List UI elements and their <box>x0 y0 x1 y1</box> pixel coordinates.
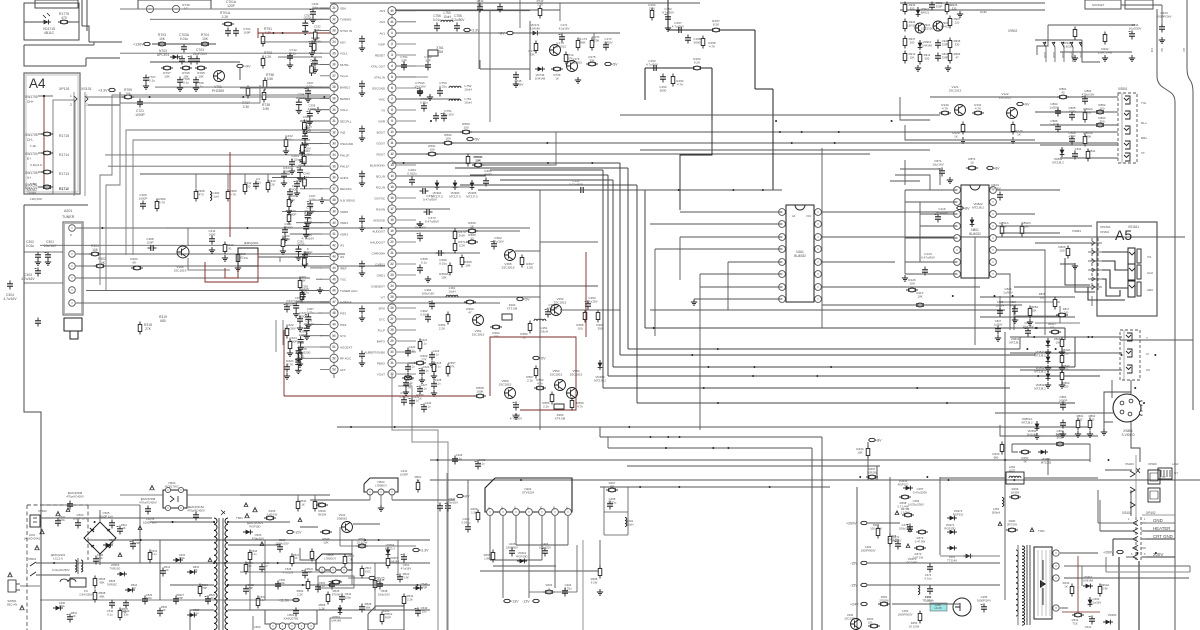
svg-text:1N4148: 1N4148 <box>331 618 341 622</box>
svg-text:0.47u/50V: 0.47u/50V <box>921 256 936 260</box>
svg-text:12: 12 <box>390 152 394 156</box>
svg-text:470u/16V: 470u/16V <box>446 500 458 504</box>
svg-text:L7805CV: L7805CV <box>324 557 336 561</box>
svg-text:0.22u: 0.22u <box>314 28 321 32</box>
svg-text:+9V: +9V <box>244 64 251 68</box>
svg-text:10u/16V: 10u/16V <box>44 244 57 248</box>
svg-text:100: 100 <box>429 148 434 152</box>
svg-text:3: 3 <box>391 53 393 57</box>
svg-text:XP1601: XP1601 <box>1100 230 1110 234</box>
svg-text:10u/16V: 10u/16V <box>1022 325 1033 329</box>
svg-text:10uH: 10uH <box>448 290 455 294</box>
svg-text:22uF/50V: 22uF/50V <box>193 52 208 56</box>
svg-text:GND: GND <box>1070 52 1074 58</box>
svg-text:41: 41 <box>332 232 336 236</box>
svg-text:1K: 1K <box>301 503 305 507</box>
svg-text:100: 100 <box>1099 107 1104 111</box>
svg-text:XT3.5M: XT3.5M <box>507 307 518 311</box>
svg-text:0.1u: 0.1u <box>311 62 317 66</box>
svg-text:GND: GND <box>1043 52 1047 58</box>
svg-text:100u: 100u <box>345 595 352 599</box>
svg-text:13: 13 <box>390 163 394 167</box>
svg-text:300: 300 <box>910 6 915 10</box>
svg-text:VOL1: VOL1 <box>340 52 348 56</box>
svg-text:10K: 10K <box>164 75 170 79</box>
svg-text:0.1u: 0.1u <box>425 404 431 408</box>
svg-text:41: 41 <box>390 20 394 24</box>
svg-text:10: 10 <box>970 161 974 165</box>
svg-text:1000P/500V: 1000P/500V <box>861 548 876 552</box>
svg-text:RGP10D: RGP10D <box>516 554 527 558</box>
svg-text:30: 30 <box>390 350 394 354</box>
svg-text:YOUT: YOUT <box>377 372 386 376</box>
svg-text:+8V: +8V <box>993 166 1000 170</box>
svg-text:2R7/1W: 2R7/1W <box>1007 522 1017 526</box>
svg-text:100u: 100u <box>97 556 103 560</box>
svg-text:0.1u: 0.1u <box>302 288 308 292</box>
svg-text:0.22u: 0.22u <box>307 311 314 315</box>
svg-text:600K: 600K <box>1084 111 1091 115</box>
svg-text:4.7K: 4.7K <box>942 107 948 111</box>
svg-text:68K: 68K <box>580 41 585 45</box>
svg-text:SFKI: SFKI <box>378 306 385 310</box>
svg-text:0.1u: 0.1u <box>183 81 189 85</box>
svg-text:HV: HV <box>1182 48 1186 52</box>
svg-text:AV3: AV3 <box>380 9 386 13</box>
svg-text:XTAL OUT: XTAL OUT <box>371 64 386 68</box>
svg-text:56: 56 <box>522 336 526 340</box>
svg-text:470P: 470P <box>121 610 127 614</box>
svg-text:GND1: GND1 <box>377 273 386 277</box>
svg-text:1K: 1K <box>122 526 125 530</box>
svg-text:+5V: +5V <box>523 297 530 301</box>
svg-text:BHTO: BHTO <box>377 339 386 343</box>
svg-text:270/2W: 270/2W <box>879 598 889 602</box>
svg-text:SW1701: SW1701 <box>25 183 38 187</box>
svg-text:47u/16V: 47u/16V <box>401 566 412 570</box>
svg-text:CHROMA: CHROMA <box>372 251 385 255</box>
svg-text:Vsync: Vsync <box>340 74 349 78</box>
svg-text:PHL1F: PHL1F <box>340 165 350 169</box>
svg-text:1K: 1K <box>294 556 297 560</box>
svg-text:0.47/1W: 0.47/1W <box>267 512 278 516</box>
svg-text:0.1u: 0.1u <box>151 552 157 556</box>
svg-text:-15V: -15V <box>850 583 858 587</box>
svg-text:2SC1815: 2SC1815 <box>570 373 583 377</box>
svg-text:10K: 10K <box>441 276 447 280</box>
svg-text:10K: 10K <box>910 55 915 59</box>
svg-text:33K: 33K <box>529 53 534 57</box>
svg-text:1000P: 1000P <box>135 113 145 117</box>
svg-text:MTZJ8.2: MTZJ8.2 <box>972 206 984 210</box>
svg-text:56K: 56K <box>284 170 290 174</box>
svg-text:1u/50V: 1u/50V <box>1049 106 1059 110</box>
svg-text:3.2K: 3.2K <box>459 244 466 248</box>
svg-text:0.01: 0.01 <box>255 181 261 185</box>
svg-text:560K: 560K <box>1057 436 1064 440</box>
svg-text:100: 100 <box>1040 295 1045 299</box>
svg-text:10u/16V: 10u/16V <box>414 226 426 230</box>
svg-text:300: 300 <box>910 40 915 44</box>
svg-text:1G: 1G <box>184 7 189 11</box>
svg-text:2SC1815: 2SC1815 <box>499 383 512 387</box>
svg-text:120P: 120P <box>227 4 236 8</box>
svg-text:28: 28 <box>332 85 336 89</box>
svg-text:10K: 10K <box>465 264 471 268</box>
svg-text:680: 680 <box>994 456 999 460</box>
svg-text:X5501: X5501 <box>28 557 37 561</box>
svg-text:26: 26 <box>332 63 336 67</box>
svg-text:1.5K: 1.5K <box>471 510 477 514</box>
svg-text:51: 51 <box>332 345 336 349</box>
svg-text:0.01u: 0.01u <box>420 101 428 105</box>
svg-text:1K: 1K <box>72 614 75 618</box>
svg-text:NTSC IN: NTSC IN <box>340 29 352 33</box>
svg-text:OSCGND: OSCGND <box>372 86 386 90</box>
svg-text:VOL2: VOL2 <box>340 108 348 112</box>
svg-text:2.2K: 2.2K <box>269 183 275 187</box>
svg-text:100: 100 <box>1050 325 1055 329</box>
svg-text:HEATER: HEATER <box>1153 526 1170 531</box>
svg-text:20: 20 <box>390 240 394 244</box>
svg-text:A1: A1 <box>792 214 796 218</box>
svg-text:17: 17 <box>390 207 394 211</box>
svg-text:2.2K: 2.2K <box>537 2 543 6</box>
svg-text:14: 14 <box>390 174 394 178</box>
svg-text:+8V: +8V <box>498 31 505 35</box>
svg-text:0.033u/250V: 0.033u/250V <box>908 502 924 506</box>
svg-text:47: 47 <box>468 311 472 315</box>
svg-text:3700W: 3700W <box>332 592 341 596</box>
svg-text:1.8K: 1.8K <box>484 556 490 560</box>
svg-text:9: 9 <box>391 119 393 123</box>
svg-text:0.47u/50V: 0.47u/50V <box>569 183 584 187</box>
svg-text:46: 46 <box>332 289 336 293</box>
svg-text:2SC2383: 2SC2383 <box>844 616 856 620</box>
svg-text:AV2: AV2 <box>380 20 386 24</box>
svg-text:36K: 36K <box>300 279 306 283</box>
svg-text:41u/16V: 41u/16V <box>559 27 570 31</box>
svg-text:1u/50V: 1u/50V <box>996 303 1005 307</box>
svg-text:0.1u: 0.1u <box>433 352 439 356</box>
svg-text:68: 68 <box>132 261 136 265</box>
svg-text:GND: GND <box>980 10 988 14</box>
svg-text:100u: 100u <box>279 581 285 585</box>
svg-text:VHC: VHC <box>379 97 386 101</box>
svg-text:1K/5W: 1K/5W <box>1011 490 1020 494</box>
svg-text:10K: 10K <box>92 248 99 252</box>
svg-text:15: 15 <box>390 185 394 189</box>
svg-text:10: 10 <box>390 130 394 134</box>
svg-text:2.2K: 2.2K <box>439 327 445 331</box>
svg-text:1.2K: 1.2K <box>297 592 303 596</box>
svg-text:0.22u: 0.22u <box>303 254 310 258</box>
svg-text:31: 31 <box>390 361 394 365</box>
svg-text:37: 37 <box>332 187 336 191</box>
svg-text:2: 2 <box>391 42 393 46</box>
svg-text:RGP15J: RGP15J <box>898 482 909 486</box>
svg-text:XT4.5M: XT4.5M <box>555 417 566 421</box>
svg-text:27K: 27K <box>421 358 426 362</box>
svg-text:-13V: -13V <box>522 599 530 603</box>
svg-text:21: 21 <box>332 6 336 10</box>
svg-text:XP400: XP400 <box>1148 462 1157 466</box>
svg-text:10K: 10K <box>202 37 209 41</box>
svg-text:48: 48 <box>332 311 336 315</box>
svg-text:4700P: 4700P <box>304 220 312 224</box>
svg-text:ROUT: ROUT <box>377 152 386 156</box>
svg-text:10u/16V: 10u/16V <box>304 322 315 326</box>
svg-text:SDA: SDA <box>340 6 346 10</box>
svg-text:FBSO: FBSO <box>377 361 386 365</box>
svg-text:BAV21: BAV21 <box>921 10 930 14</box>
svg-text:CVBS1: CVBS1 <box>375 262 385 266</box>
svg-text:1000u/25V: 1000u/25V <box>275 541 289 545</box>
svg-text:XP402: XP402 <box>1146 511 1156 515</box>
svg-text:PIF2: PIF2 <box>340 323 347 327</box>
svg-text:RCLIN: RCLIN <box>376 185 385 189</box>
svg-text:+9V: +9V <box>1023 102 1030 106</box>
svg-text:3.9K: 3.9K <box>1102 586 1108 590</box>
svg-text:R811: R811 <box>1089 149 1096 153</box>
svg-text:1K: 1K <box>162 608 165 612</box>
svg-text:9.1W: 9.1W <box>591 580 598 584</box>
svg-text:100u: 100u <box>179 556 185 560</box>
svg-text:2.7K: 2.7K <box>287 363 294 367</box>
svg-text:4.7u/50V: 4.7u/50V <box>672 25 685 29</box>
svg-text:RLo: RLo <box>1141 121 1147 125</box>
svg-text:1uH: 1uH <box>213 195 219 199</box>
svg-text:N.B./SENS: N.B./SENS <box>340 199 355 203</box>
svg-text:VDR5: VDR5 <box>340 210 348 214</box>
svg-text:BAND1: BAND1 <box>340 86 350 90</box>
svg-text:BCLIN: BCLIN <box>376 174 385 178</box>
svg-text:5000P/2kV: 5000P/2kV <box>1156 15 1172 19</box>
svg-text:3.1K(3.9: 3.1K(3.9 <box>30 163 42 167</box>
svg-text:A201: A201 <box>64 209 72 213</box>
svg-text:2: 2 <box>86 103 88 107</box>
svg-text:10u/16V: 10u/16V <box>304 209 315 213</box>
svg-text:470P: 470P <box>421 585 428 589</box>
svg-text:100: 100 <box>1090 417 1095 421</box>
svg-text:GND: GND <box>1052 52 1056 58</box>
svg-text:220: 220 <box>955 20 960 24</box>
svg-text:50: 50 <box>332 334 336 338</box>
svg-text:R1713: R1713 <box>59 172 69 176</box>
svg-text:1.2K: 1.2K <box>30 144 37 148</box>
svg-text:680: 680 <box>160 319 166 323</box>
svg-text:RESET: RESET <box>375 53 385 57</box>
svg-text:470P: 470P <box>1068 135 1075 139</box>
svg-text:VDR3: VDR3 <box>340 232 348 236</box>
svg-text:47u/16V: 47u/16V <box>492 240 504 244</box>
svg-text:IF1: IF1 <box>340 244 345 248</box>
svg-text:18: 18 <box>390 218 394 222</box>
svg-text:0.022u: 0.022u <box>407 172 417 176</box>
svg-text:43: 43 <box>332 255 336 259</box>
svg-text:56K: 56K <box>366 605 371 609</box>
svg-text:C441: C441 <box>1085 625 1092 629</box>
svg-text:470: 470 <box>198 193 203 197</box>
svg-text:FO: FO <box>1150 48 1154 53</box>
svg-text:10u 16V: 10u 16V <box>442 113 454 117</box>
svg-text:PLLP: PLLP <box>378 328 385 332</box>
svg-text:1000P: 1000P <box>303 17 311 21</box>
svg-text:0.01u: 0.01u <box>433 18 441 22</box>
svg-text:4700P: 4700P <box>299 333 307 337</box>
svg-text:BAND2: BAND2 <box>340 97 350 101</box>
svg-text:4700P: 4700P <box>308 107 316 111</box>
svg-text:-15V: -15V <box>850 561 858 565</box>
svg-text:TVR10G: TVR10G <box>110 566 121 570</box>
svg-text:100P: 100P <box>146 241 153 245</box>
svg-text:0.1u: 0.1u <box>421 261 427 265</box>
svg-text:L503: L503 <box>254 625 261 629</box>
svg-text:24: 24 <box>390 284 394 288</box>
svg-text:0.1u: 0.1u <box>477 2 483 6</box>
svg-text:+24V: +24V <box>850 602 859 606</box>
svg-text:XP1601: XP1601 <box>1100 225 1111 229</box>
svg-text:0.033u: 0.033u <box>462 521 471 525</box>
svg-text:2SB562: 2SB562 <box>337 517 348 521</box>
svg-text:0.1u: 0.1u <box>435 381 441 385</box>
svg-text:470P: 470P <box>1010 303 1016 307</box>
svg-text:100: 100 <box>445 137 450 141</box>
svg-text:0.1u: 0.1u <box>290 52 296 56</box>
svg-text:FIL: FIL <box>244 256 249 260</box>
svg-text:8.2K: 8.2K <box>713 23 720 27</box>
svg-text:1K: 1K <box>194 568 197 572</box>
svg-text:MUTE: MUTE <box>340 63 349 67</box>
svg-text:27: 27 <box>332 74 336 78</box>
svg-text:GND: GND <box>1061 52 1065 58</box>
svg-text:2SC1815: 2SC1815 <box>570 61 582 65</box>
svg-text:100: 100 <box>577 327 582 331</box>
svg-text:1000P: 1000P <box>400 472 408 476</box>
svg-text:1K: 1K <box>110 541 113 545</box>
svg-text:4.7u/16V: 4.7u/16V <box>3 297 17 301</box>
svg-text:TT2140: TT2140 <box>947 558 957 562</box>
svg-text:330: 330 <box>955 42 960 46</box>
svg-text:100u: 100u <box>59 518 65 522</box>
svg-text:R2VIN: R2VIN <box>376 207 385 211</box>
svg-text:39/2W: 39/2W <box>318 513 327 517</box>
svg-text:0.1u: 0.1u <box>312 5 318 9</box>
svg-text:100u/16V: 100u/16V <box>422 292 435 296</box>
svg-text:A4: A4 <box>29 76 46 91</box>
svg-text:13M: 13M <box>437 50 444 54</box>
svg-text:0.22u: 0.22u <box>301 141 308 145</box>
svg-text:0.1u: 0.1u <box>319 584 325 588</box>
svg-text:+5V: +5V <box>611 62 618 66</box>
svg-text:0.01u: 0.01u <box>925 598 932 602</box>
svg-text:IF2: IF2 <box>340 255 345 259</box>
svg-text:SW1704: SW1704 <box>25 152 38 156</box>
svg-text:MTZ3.3: MTZ3.3 <box>385 546 395 550</box>
svg-text:BU4082: BU4082 <box>794 254 806 258</box>
svg-text:1K: 1K <box>1064 584 1068 588</box>
svg-text:0.1u: 0.1u <box>149 79 155 83</box>
svg-text:XS101: XS101 <box>81 87 92 91</box>
svg-text:33: 33 <box>332 142 336 146</box>
svg-text:SEC-AN: SEC-AN <box>7 602 18 606</box>
svg-text:MTZJ7.5: MTZJ7.5 <box>466 195 478 199</box>
svg-text:5600: 5600 <box>694 41 701 45</box>
svg-text:10K: 10K <box>198 75 204 79</box>
svg-text:10K: 10K <box>1001 225 1006 229</box>
svg-text:MTZJ8.2: MTZJ8.2 <box>1034 354 1046 358</box>
svg-text:BU4052: BU4052 <box>969 232 981 236</box>
svg-text:+8V: +8V <box>463 494 470 498</box>
svg-text:VDR4: VDR4 <box>340 221 348 225</box>
svg-text:220: 220 <box>246 185 251 189</box>
svg-text:PIF1: PIF1 <box>340 312 347 316</box>
svg-text:MTZJ82: MTZJ82 <box>1041 461 1052 465</box>
svg-text:4B11C: 4B11C <box>44 31 55 35</box>
svg-text:22: 22 <box>332 17 336 21</box>
svg-text:3.3K: 3.3K <box>243 105 251 109</box>
svg-text:2.2K: 2.2K <box>222 15 230 19</box>
svg-text:38: 38 <box>332 198 336 202</box>
svg-text:[EMC]Z301: [EMC]Z301 <box>244 241 259 245</box>
svg-text:330P: 330P <box>936 4 943 8</box>
svg-text:10K: 10K <box>1056 340 1061 344</box>
svg-text:+3.3V: +3.3V <box>419 548 429 552</box>
svg-text:0.1u: 0.1u <box>413 398 419 402</box>
svg-text:2.2k: 2.2k <box>527 379 533 383</box>
svg-text:470P: 470P <box>134 541 140 545</box>
svg-text:STV9224: STV9224 <box>522 491 534 495</box>
svg-text:RRo: RRo <box>1141 136 1147 140</box>
svg-text:44: 44 <box>332 266 336 270</box>
svg-text:0.1u: 0.1u <box>251 552 257 556</box>
svg-text:GND: GND <box>1153 518 1163 523</box>
svg-text:(HUXD-04A1: (HUXD-04A1 <box>24 536 41 540</box>
svg-text:1.1/5W: 1.1/5W <box>901 510 910 514</box>
svg-text:10K: 10K <box>1032 308 1037 312</box>
svg-text:1.5K: 1.5K <box>527 266 534 270</box>
svg-text:KA5Q0765: KA5Q0765 <box>284 617 299 621</box>
svg-text:300: 300 <box>1099 120 1104 124</box>
svg-text:390: 390 <box>597 327 602 331</box>
svg-text:600K: 600K <box>1084 135 1091 139</box>
svg-text:1K: 1K <box>555 77 559 81</box>
svg-text:XS402: XS402 <box>1122 511 1132 515</box>
svg-text:0.1u: 0.1u <box>304 175 310 179</box>
svg-text:RGP15D: RGP15D <box>906 560 917 564</box>
svg-text:CVBSEXT: CVBSEXT <box>371 284 385 288</box>
svg-text:RGP15J: RGP15J <box>953 512 964 516</box>
svg-text:3.3K: 3.3K <box>403 575 409 579</box>
svg-text:0.47u/50V: 0.47u/50V <box>423 198 438 202</box>
svg-text:L412: L412 <box>1172 462 1179 466</box>
svg-text:0.1u: 0.1u <box>409 348 415 352</box>
svg-text:100P: 100P <box>243 31 250 35</box>
svg-text:68K: 68K <box>100 580 105 584</box>
svg-text:RF AGC: RF AGC <box>340 357 352 361</box>
svg-text:100: 100 <box>1059 249 1064 253</box>
svg-text:11: 11 <box>390 141 394 145</box>
svg-text:YS: YS <box>381 108 385 112</box>
svg-text:0.1u: 0.1u <box>304 118 310 122</box>
svg-text:SOCKET: SOCKET <box>1092 3 1105 7</box>
svg-text:0.1u: 0.1u <box>456 456 462 460</box>
svg-text:+200V: +200V <box>846 521 857 525</box>
svg-text:39: 39 <box>332 210 336 214</box>
svg-text:CH+: CH+ <box>27 100 34 104</box>
svg-text:4700P: 4700P <box>289 340 298 344</box>
svg-text:330: 330 <box>952 6 957 10</box>
